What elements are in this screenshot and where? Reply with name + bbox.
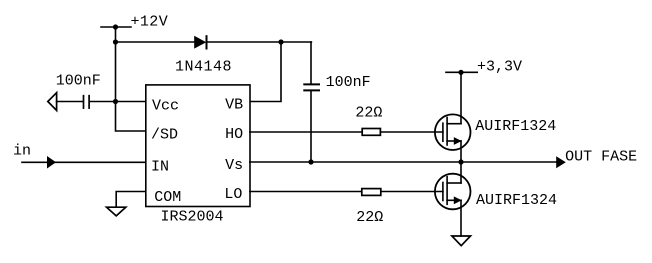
op-amp driver IC U1 IRS2004 body xyxy=(146,85,250,207)
svg-text:+3,3V: +3,3V xyxy=(477,58,522,75)
svg-text:IRS2004: IRS2004 xyxy=(161,209,224,226)
arrow OUT FASE xyxy=(556,156,566,168)
svg-text:AUIRF1324: AUIRF1324 xyxy=(476,192,557,209)
wire R1 to Q1 gate xyxy=(380,131,443,133)
svg-text:LO: LO xyxy=(224,186,242,203)
svg-text:+12V: +12V xyxy=(131,14,169,31)
transistor Q1 AUIRF1324 (high side) xyxy=(435,114,471,150)
ground (Q2 source) xyxy=(452,236,471,246)
resistor R1 22ohm xyxy=(362,129,380,136)
svg-text:/SD: /SD xyxy=(151,127,178,144)
capacitor C2 100nF bootstrap xyxy=(304,42,319,162)
wire diode branch anode side xyxy=(116,41,195,43)
svg-text:22Ω: 22Ω xyxy=(355,105,382,122)
wire VB riser down to VB pin xyxy=(250,42,281,102)
svg-text:HO: HO xyxy=(225,126,243,143)
svg-text:Vs: Vs xyxy=(225,157,243,174)
transistor Q2 AUIRF1324 (low side) xyxy=(435,174,471,210)
svg-text:100nF: 100nF xyxy=(56,72,101,89)
wire HO pin to R1 xyxy=(250,131,362,133)
wire Q1 source to Vs line xyxy=(460,141,462,162)
arrow on input wire xyxy=(47,156,56,169)
svg-text:IN: IN xyxy=(151,158,169,175)
connector input arrow (left open triangle) xyxy=(48,93,57,111)
power +3,3V supply tick xyxy=(446,71,477,73)
node junction rail/diode branch xyxy=(113,39,118,44)
svg-text:1N4148: 1N4148 xyxy=(175,58,232,75)
svg-text:VB: VB xyxy=(225,97,243,114)
svg-text:in: in xyxy=(13,142,31,159)
svg-text:OUT FASE: OUT FASE xyxy=(565,149,637,166)
wire Q2 source to ground xyxy=(460,200,462,236)
svg-text:COM: COM xyxy=(154,189,181,206)
wire diode cathode to bootstrap cap elbow xyxy=(207,41,312,43)
wire R2 to Q2 gate xyxy=(381,191,443,193)
capacitor C1 100nF decoupling xyxy=(84,96,90,108)
node junction diode line / VB riser xyxy=(278,39,283,44)
junction dot at +12V tick xyxy=(113,24,118,29)
node junction Vs / MOSFET pair xyxy=(458,159,463,164)
resistor R2 22ohm xyxy=(362,189,381,196)
wire Vs to Q2 drain xyxy=(460,162,462,183)
wire COM pin to ground xyxy=(116,192,146,208)
node junction rail/Vcc/C1 xyxy=(113,99,118,104)
power +12V supply tick xyxy=(101,26,131,28)
diode D1 1N4148 xyxy=(194,36,206,49)
svg-text:AUIRF1324: AUIRF1324 xyxy=(475,118,556,135)
svg-text:100nF: 100nF xyxy=(326,74,371,91)
wire C1 to Vcc pin xyxy=(90,101,146,103)
wire +3,3V to Q1 drain xyxy=(460,72,462,123)
svg-text:22Ω: 22Ω xyxy=(356,209,383,226)
wire LO pin to R2 xyxy=(250,191,362,193)
ground (COM) xyxy=(107,207,126,216)
wire input in to IN pin xyxy=(22,161,146,163)
node junction C2 / Vs line xyxy=(308,159,313,164)
svg-text:Vcc: Vcc xyxy=(152,98,179,115)
junction dot at +3,3V tick xyxy=(458,70,463,75)
wire +12V rail down to /SD pin elbow xyxy=(116,27,146,131)
wire connector to C1 xyxy=(57,101,83,103)
wire Vs pin to OUT FASE xyxy=(250,161,557,163)
